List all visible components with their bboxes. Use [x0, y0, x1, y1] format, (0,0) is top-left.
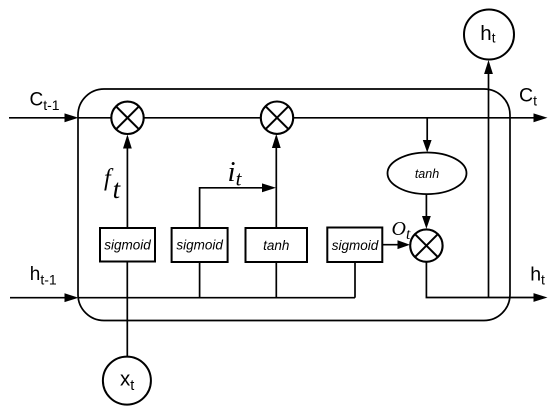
wire sigmoid4 bottom stub	[354, 262, 356, 298]
wire C(t-1) input	[9, 113, 79, 122]
wire tanh ellipse to multiply3	[422, 194, 431, 229]
multiply gate 1 (forget)	[111, 102, 143, 134]
svg-text:it: it	[228, 156, 243, 191]
wire multiply3 down and right: h(t) output	[426, 262, 540, 298]
sigmoid gate box 4	[327, 228, 382, 263]
wire h(t) branch up to h(t) circle	[484, 60, 493, 298]
wire cell-state top line	[78, 117, 540, 119]
svg-text:ht: ht	[530, 263, 545, 287]
wire C(t) output arrowhead	[534, 113, 548, 122]
wire x(t) up through sigmoid gate 1	[126, 262, 128, 358]
wire sigmoid4 to multiply3 (output gate)	[383, 240, 411, 249]
wire tanh box to multiply2	[272, 134, 281, 298]
wire branch down to tanh ellipse	[423, 118, 432, 153]
wire h(t-1) input	[10, 293, 79, 302]
svg-text:Ct-1: Ct-1	[30, 90, 60, 114]
svg-text:Ct: Ct	[519, 84, 537, 108]
multiply gate 3 (output)	[410, 229, 442, 261]
sigmoid gate box 1	[100, 228, 155, 262]
node h(t) output circle	[464, 10, 514, 60]
multiply gate 2 (input)	[261, 102, 293, 134]
svg-text:Ot: Ot	[392, 218, 411, 243]
wire sigmoid2 up then right (input gate i_t)	[200, 188, 264, 298]
wire h(t-1) inner bus to gates	[78, 297, 355, 299]
svg-text:sigmoid: sigmoid	[104, 238, 151, 253]
svg-text:tanh: tanh	[415, 167, 439, 181]
svg-text:ft: ft	[104, 166, 122, 205]
svg-text:tanh: tanh	[263, 238, 289, 253]
node x(t) input circle	[103, 357, 151, 405]
tanh gate box 3	[246, 228, 308, 262]
LSTM cell body rounded rectangle	[78, 89, 510, 321]
svg-text:sigmoid: sigmoid	[332, 238, 379, 253]
svg-text:ht-1: ht-1	[30, 264, 57, 288]
svg-text:sigmoid: sigmoid	[176, 238, 223, 253]
sigmoid gate box 2	[172, 228, 228, 262]
wire sigmoid1 to multiply1 (forget gate f_t)	[123, 135, 132, 229]
tanh activation ellipse	[388, 153, 467, 195]
